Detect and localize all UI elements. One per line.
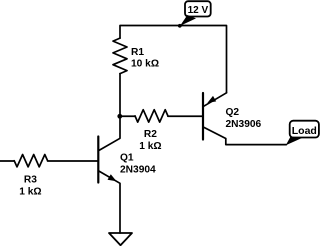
transistor Q1 collector lead: [99, 116, 120, 150]
transistor Q1 base bar: [97, 137, 99, 183]
svg-text:1 kΩ: 1 kΩ: [139, 141, 161, 152]
svg-text:1 kΩ: 1 kΩ: [19, 186, 41, 197]
svg-text:12 V: 12 V: [188, 5, 209, 16]
supply 12 V callout tail: [180, 15, 196, 26]
svg-text:R3: R3: [24, 175, 37, 186]
node junction dot (R1/R2/Q1 collector): [117, 114, 122, 119]
transistor Q2 base bar: [202, 93, 204, 140]
wire R1 bottom lead to junction: [119, 74, 121, 117]
resistor R3: [14, 155, 47, 167]
svg-text:2N3906: 2N3906: [226, 119, 262, 130]
svg-text:Load: Load: [292, 125, 317, 137]
transistor Q2 emitter lead: [204, 93, 227, 107]
wire R2 to Q2 base: [168, 115, 202, 117]
transistor Q1 emitter lead: [99, 171, 120, 233]
wire R3 left lead: [0, 160, 14, 162]
svg-text:2N3904: 2N3904: [120, 164, 156, 175]
wire junction to R2: [120, 115, 135, 117]
Load callout tail: [286, 137, 303, 146]
transistor Q1 emitter arrow: [108, 174, 117, 181]
transistor Q2 collector lead + wire to Load: [204, 127, 287, 144]
svg-text:R1: R1: [131, 47, 144, 58]
Load callout box: [290, 121, 319, 138]
svg-text:Q1: Q1: [120, 153, 134, 164]
svg-text:R2: R2: [144, 129, 157, 140]
wire R3 to Q1 base: [48, 160, 98, 162]
ground: [109, 233, 132, 245]
resistor R2: [135, 110, 168, 122]
supply 12 V callout box: [185, 1, 211, 16]
wire top rail from R1 top to Q2 emitter drop: [120, 26, 227, 93]
svg-text:Q2: Q2: [226, 107, 240, 118]
node dot at 12 V tap: [178, 24, 182, 28]
resistor R1: [113, 38, 127, 74]
svg-text:10 kΩ: 10 kΩ: [131, 59, 159, 70]
transistor Q2 emitter arrow: [207, 96, 216, 103]
